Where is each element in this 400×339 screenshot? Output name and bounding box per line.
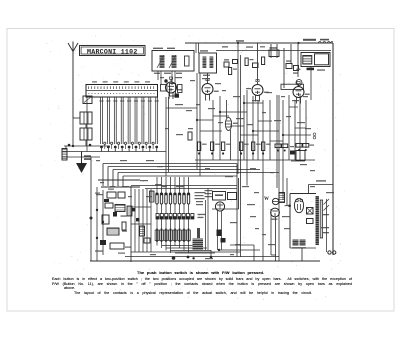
label: [150, 254, 156, 255]
label: [110, 186, 115, 187]
fuse F2: [300, 240, 306, 246]
wire: [275, 217, 277, 255]
aerial coil L2: [80, 112, 92, 124]
wire: [131, 223, 151, 225]
wire: [73, 117, 80, 119]
push-button switch bank S1 (upper contacts): [86, 85, 158, 98]
wire: [134, 189, 136, 252]
mains transformer T4 primary winding: [316, 196, 319, 245]
label: [300, 164, 307, 165]
wire: [195, 159, 315, 161]
capacitor C5: [100, 240, 106, 245]
label: [282, 216, 290, 217]
wire: [275, 255, 277, 261]
wire: [107, 167, 109, 187]
wire: [123, 175, 237, 177]
switch contact strip 6: [178, 193, 180, 204]
label: [96, 160, 100, 161]
wire: [219, 96, 221, 160]
capacitor C15: [233, 60, 238, 64]
label: [175, 104, 183, 105]
resistor R1: [293, 66, 299, 74]
wire: [262, 100, 264, 261]
resistor R18: [245, 58, 254, 66]
label: [100, 182, 104, 183]
wire: [131, 206, 151, 208]
capacitor C16: [253, 63, 259, 68]
resistor R10: [296, 144, 302, 152]
wire: [246, 90, 248, 186]
capacitor C19: [113, 212, 117, 217]
label: [175, 77, 182, 78]
label: [290, 146, 294, 147]
node H: [219, 111, 221, 113]
wire: [174, 219, 176, 229]
wire: [62, 151, 166, 153]
label: [225, 176, 233, 177]
label: [266, 92, 272, 93]
label TONE: [316, 180, 326, 181]
label: [202, 78, 210, 79]
wire: [168, 97, 170, 172]
wire: [62, 156, 100, 158]
label: [155, 184, 161, 185]
wire: [326, 199, 328, 252]
coil L3: [161, 84, 183, 97]
label: [292, 100, 299, 101]
label Back of chassis: [205, 190, 213, 191]
wire: [112, 170, 114, 187]
valve V4 output: [293, 80, 310, 104]
capacitor C2: [286, 60, 292, 68]
switch plunger 1: [99, 97, 103, 152]
wire: [156, 177, 158, 193]
wire: [188, 177, 190, 193]
coil L5: [115, 205, 125, 212]
node A: [237, 42, 239, 44]
valve V5 rectifier driver: [215, 202, 224, 211]
resistor R12: [105, 203, 113, 208]
wire: [310, 67, 312, 100]
caption paragraph line 3: [64, 286, 75, 290]
wire: [175, 252, 215, 254]
wire: [183, 177, 185, 193]
wire: [174, 177, 176, 193]
wire: [103, 163, 237, 165]
resistor R16: [279, 193, 285, 203]
switch wafer contact 6: [178, 214, 181, 220]
wire: [237, 43, 239, 174]
label: [188, 128, 193, 129]
wire: [156, 204, 158, 214]
wire: [146, 189, 148, 252]
wire: [150, 189, 152, 252]
switch frame bar: [193, 228, 204, 250]
resistor R11: [303, 144, 309, 152]
caption final line: [74, 291, 312, 295]
wire: [244, 102, 263, 104]
wire: [108, 166, 237, 168]
label: [162, 186, 167, 187]
label: [157, 166, 163, 167]
P/W button box: [213, 192, 226, 201]
ground: [76, 152, 87, 174]
label: [146, 160, 154, 161]
wire: [240, 55, 242, 257]
wire: [162, 245, 203, 247]
wire: [161, 204, 163, 214]
wire: [170, 250, 211, 252]
label: [218, 122, 223, 123]
wire: [131, 251, 240, 253]
wire: [257, 43, 259, 81]
chassis choke L7: [62, 149, 67, 161]
label: [165, 128, 169, 129]
wire: [236, 164, 238, 258]
label: [230, 254, 234, 255]
wire: [170, 177, 172, 193]
wire: [117, 173, 119, 187]
fuse F1: [293, 240, 299, 246]
wire: [295, 127, 306, 129]
label: [146, 196, 152, 197]
trimmer capacitor TC5: [131, 142, 133, 149]
wire: [72, 118, 74, 146]
node G: [288, 204, 291, 207]
label: [310, 186, 315, 187]
caption bold line: [137, 270, 264, 275]
label: [215, 83, 221, 84]
wire: [195, 43, 197, 53]
label: [120, 160, 127, 161]
caption paragraph line 1: [52, 277, 352, 281]
switch contact strip 4: [169, 193, 171, 204]
wire: [179, 204, 181, 214]
wire: [102, 190, 104, 255]
wire: [183, 204, 185, 214]
label: [205, 168, 210, 169]
resistor R9: [282, 144, 288, 152]
wire: [165, 219, 167, 229]
label: [255, 228, 259, 229]
wire: [290, 247, 316, 249]
wire: [301, 248, 303, 261]
resistor R17: [229, 68, 238, 75]
node C: [68, 144, 71, 147]
wire: [170, 219, 172, 229]
capacitor C14: [224, 59, 229, 67]
coil L8: [127, 206, 132, 216]
trimmer capacitor TC3: [118, 142, 120, 149]
label: [262, 234, 266, 235]
label: [140, 180, 148, 181]
wire: [271, 254, 276, 256]
capacitor C8: [136, 218, 139, 221]
wire: [309, 184, 334, 186]
wire: [226, 100, 228, 118]
wire: [174, 242, 176, 246]
coil L9: [150, 191, 155, 202]
label: [95, 193, 100, 194]
switch contact strip 5: [174, 193, 176, 204]
label: [274, 120, 281, 121]
node I: [90, 217, 93, 220]
label: [305, 128, 311, 129]
label: [196, 104, 200, 105]
switch plunger 9: [155, 97, 159, 152]
wire: [188, 242, 190, 253]
wire: [161, 242, 163, 248]
valve V1 frequency changer: [164, 77, 182, 99]
wire: [85, 124, 87, 128]
node E: [187, 256, 190, 259]
wire: [165, 97, 167, 177]
capacitor C7: [132, 208, 135, 211]
label: [176, 186, 184, 187]
capacitor C6: [110, 243, 124, 249]
wire: [170, 204, 172, 214]
wire: [220, 111, 247, 113]
resistor R5: [240, 142, 249, 155]
wire: [240, 134, 258, 136]
resistor R14: [140, 226, 145, 236]
resistor R21: [188, 132, 192, 140]
label: [303, 96, 308, 97]
wire: [156, 219, 158, 229]
label: [247, 124, 253, 125]
switch wafer contact 8: [186, 214, 189, 220]
HT+ supply rail: [185, 39, 333, 43]
label: [186, 110, 192, 111]
label: [176, 134, 183, 135]
wire: [269, 100, 271, 160]
wire: [305, 100, 307, 148]
wire: [156, 242, 158, 246]
title box MARCONI 1102: [80, 46, 146, 56]
wire: [102, 164, 104, 187]
switch wafer contact 4: [169, 214, 172, 220]
label: [195, 192, 206, 193]
wire: [165, 204, 167, 214]
label: [222, 90, 226, 91]
wire: [207, 73, 209, 81]
wire: [122, 176, 124, 186]
wire: [138, 189, 140, 252]
label: [250, 216, 256, 217]
switch wafer contact 2: [160, 214, 163, 220]
capacitor C17: [84, 155, 91, 157]
resistor R20: [122, 222, 126, 230]
oscillator coil L4: [80, 128, 92, 140]
switch plunger 3: [113, 97, 117, 152]
wire: [145, 188, 237, 190]
label: [252, 100, 260, 101]
wire: [130, 186, 132, 262]
resistor R2: [198, 142, 207, 155]
switch plunger 5: [127, 97, 131, 152]
capacitor C4: [118, 192, 125, 198]
wire: [253, 130, 279, 132]
wire: [199, 73, 201, 177]
node B: [297, 42, 299, 44]
wire: [278, 95, 280, 261]
wire: [205, 200, 207, 250]
label: [122, 186, 129, 187]
wire: [113, 169, 260, 171]
wire: [216, 50, 331, 52]
wire: [179, 219, 181, 229]
label: [222, 46, 228, 47]
capacitor C18: [104, 199, 109, 202]
switch contact strip 2: [160, 193, 162, 204]
wire: [179, 242, 181, 248]
label: [250, 168, 256, 169]
wire: [166, 247, 207, 249]
aerial coil L1: [83, 96, 92, 104]
trimmer capacitor TC6: [138, 142, 140, 149]
wire: [297, 44, 299, 77]
node D: [96, 209, 98, 211]
trimmer capacitor TC7: [145, 142, 147, 149]
wire: [283, 134, 311, 136]
voltage selector arrow: [324, 199, 330, 211]
wire: [283, 48, 285, 88]
label: [190, 80, 195, 81]
switch lower contact 8: [187, 229, 191, 243]
screening can: [281, 84, 304, 89]
capacitor C3: [107, 192, 116, 198]
switch wafer contact 3: [165, 214, 168, 220]
switch lower contact 7: [182, 229, 186, 243]
wire: [165, 177, 167, 193]
label: [322, 214, 329, 215]
switch contact strip 1: [156, 193, 158, 204]
wire: [332, 43, 334, 255]
wire: [197, 119, 213, 121]
switch lower contact 6: [178, 229, 182, 243]
switch plunger 6: [134, 97, 138, 152]
capacitor C20: [290, 151, 305, 162]
wire: [196, 73, 198, 170]
label: [230, 222, 237, 223]
resistor R13: [102, 215, 109, 224]
label: [262, 112, 266, 113]
wire: [65, 146, 67, 149]
label: [297, 122, 305, 123]
wire: [230, 130, 232, 160]
switch contact strip 3: [165, 193, 167, 204]
label: [284, 228, 290, 229]
capacitor C1: [269, 44, 279, 58]
trimmer capacitor TC8: [152, 142, 154, 149]
label: [236, 118, 244, 119]
wire: [188, 219, 190, 229]
wave-band unit enclosure: [98, 180, 140, 187]
label: [281, 96, 285, 97]
label: [286, 116, 291, 117]
valve V3 detector: [252, 80, 269, 102]
wire: [299, 95, 301, 160]
capacitor C12: [307, 208, 314, 215]
wire: [118, 172, 279, 174]
jack socket J1: [313, 133, 316, 139]
svg-text:W: W: [264, 197, 269, 202]
label: [235, 244, 240, 245]
wire: [200, 130, 222, 132]
antenna: [68, 42, 78, 52]
wire: [308, 185, 310, 194]
switch wafer contact 9: [191, 214, 194, 220]
switch plunger 8: [148, 97, 152, 152]
wire: [125, 256, 279, 258]
wire: [294, 100, 296, 160]
IF transformer T3: [225, 118, 237, 131]
wire: [290, 44, 292, 64]
resistor R19: [262, 57, 265, 65]
wire: [72, 52, 74, 119]
wire: [290, 193, 316, 195]
label: [246, 88, 251, 89]
wire: [86, 97, 88, 152]
resistor R3: [211, 142, 220, 155]
label: [292, 247, 306, 248]
switch wafer contact 1: [156, 214, 159, 220]
wire: [166, 107, 197, 109]
switch contact strip 8: [187, 193, 189, 204]
switch wafer contact 7: [182, 214, 185, 220]
wire: [188, 204, 190, 214]
wire: [258, 120, 272, 122]
wire: [96, 187, 98, 261]
trimmer capacitor TC1: [104, 142, 106, 149]
label: [198, 214, 206, 215]
wire: [289, 106, 298, 108]
wire: [289, 194, 291, 249]
label: [247, 204, 255, 205]
switch contact strip 7: [183, 193, 185, 204]
trimmer capacitor TC4: [124, 142, 126, 149]
label: [268, 244, 275, 245]
wire: [90, 157, 92, 261]
wire: [161, 219, 163, 229]
label: [310, 170, 315, 171]
switch lower contact 5: [173, 229, 177, 243]
wire: [85, 140, 87, 146]
wire: [288, 95, 290, 160]
switch plunger 7: [141, 97, 145, 152]
wire: [285, 205, 291, 207]
wire: [210, 250, 212, 257]
wire: [161, 177, 163, 193]
wire: [183, 219, 185, 229]
label: [326, 192, 334, 193]
switch lower contact 1: [155, 229, 159, 243]
node F: [218, 249, 220, 251]
resistor R6: [252, 142, 261, 155]
label: [208, 108, 215, 109]
switch wafer contact 5: [173, 214, 176, 220]
switch unit enclosure corner: [212, 178, 239, 209]
resistor R4: [222, 142, 231, 155]
label: [96, 194, 103, 195]
label: [242, 186, 249, 187]
label: [233, 96, 240, 97]
wire: [64, 145, 110, 147]
wire: [213, 115, 229, 117]
switch lower contact 4: [169, 229, 173, 243]
wire: [174, 204, 176, 214]
wire: [217, 211, 219, 250]
